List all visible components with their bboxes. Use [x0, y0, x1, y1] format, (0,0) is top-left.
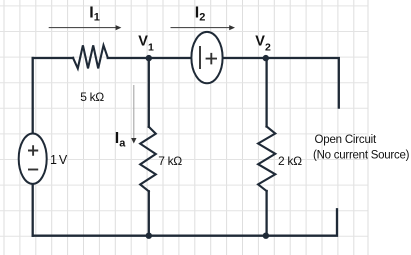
svg-text:2 kΩ: 2 kΩ	[278, 154, 302, 168]
svg-text:7 kΩ: 7 kΩ	[158, 154, 182, 168]
svg-text:1 V: 1 V	[50, 153, 68, 167]
svg-text:(No current Source): (No current Source)	[313, 149, 410, 161]
svg-text:5 kΩ: 5 kΩ	[80, 90, 104, 104]
svg-text:Open Circuit: Open Circuit	[315, 134, 378, 146]
